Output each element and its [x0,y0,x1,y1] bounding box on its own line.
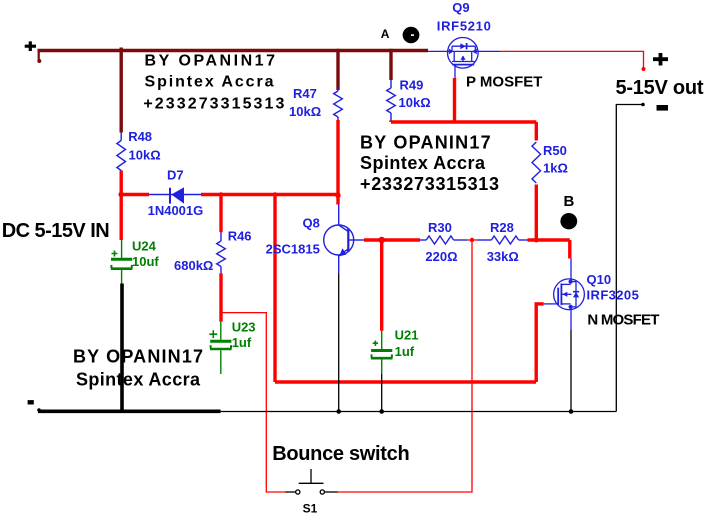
wire: top positive input rail [38,49,429,53]
mosfet Q9 IRF5210 (P MOSFET) [428,38,500,79]
svg-text:R50: R50 [543,143,567,158]
label - output [657,105,669,111]
wire: bounce net switch right to R30/R28 junction (thin red) [338,240,472,492]
svg-text:1uf: 1uf [232,335,252,350]
svg-text:P MOSFET: P MOSFET [466,74,542,91]
svg-text:U23: U23 [232,320,256,335]
svg-text:10uf: 10uf [132,254,159,269]
resistor R46 [217,232,226,273]
wire: maroon stub to R48 [119,48,122,133]
wire: U21 bottom to ground [381,374,383,412]
mosfet Q10 IRF3205 (N MOSFET) [544,259,585,331]
svg-text:R46: R46 [228,229,252,244]
wire: bounce net from U23 node to switch (thin red) [221,313,286,492]
wire: short red at R30/R28 junction [467,239,478,241]
wire: U24 bottom column thick black [120,284,124,412]
svg-text:Spintex Accra: Spintex Accra [145,74,274,91]
svg-text:S1: S1 [303,502,318,516]
svg-text:U21: U21 [395,328,419,343]
junction: x275 tee on D7 row [273,192,278,197]
svg-text:BY OPANIN17: BY OPANIN17 [360,133,491,153]
svg-text:DC 5-15V IN: DC 5-15V IN [2,220,110,242]
svg-text:Q8: Q8 [303,215,320,230]
annotation block middle: BY OPANIN17 [360,133,499,195]
wire: maroon stub to R49 [389,49,392,80]
svg-text:N MOSFET: N MOSFET [587,312,659,329]
svg-text:680kΩ: 680kΩ [174,258,213,273]
wire: Q8 base row [364,238,420,241]
wire: D7 row right segment to Q8 collector node [201,193,340,196]
wire: Q10 gate stub [535,302,544,305]
terminal hook at left end of top rail [38,51,40,61]
wire: output negative [616,105,643,412]
resistor R28 [478,236,528,244]
svg-text:Q9: Q9 [452,0,469,15]
diode D7 1N4001G [149,188,201,204]
junction: Q10 source at ground [569,409,574,414]
svg-text:10kΩ: 10kΩ [129,148,161,163]
node A [403,27,420,43]
svg-text:D7: D7 [167,168,184,183]
capacitor U23 1uf [209,322,231,374]
wire: vertical from D7 row down to bottom red rail [273,195,276,383]
wire: D7 row left segment [121,193,149,196]
resistor R49 [387,80,396,121]
svg-text:1uf: 1uf [395,344,415,359]
wire: ground rail thin [221,411,617,413]
svg-text:BY OPANIN17: BY OPANIN17 [73,347,203,367]
resistor R50 [532,142,541,183]
label - input [28,400,34,404]
svg-text:Spintex Accra: Spintex Accra [360,153,486,173]
wire: R50 bottom lead to node B row [535,185,538,241]
svg-text:A: A [381,27,390,41]
svg-text:BY OPANIN17: BY OPANIN17 [145,53,276,70]
annotation block bottom-left: BY OPANIN17 [73,347,203,390]
transistor Q8 2SC1815 [324,205,364,275]
svg-text:IRF3205: IRF3205 [587,288,639,303]
svg-text:R30: R30 [428,220,452,235]
wire: Q10 source to ground [570,330,572,412]
svg-text:220Ω: 220Ω [425,249,457,264]
svg-text:33kΩ: 33kΩ [487,249,519,264]
junction: R48/U24/D7 node [118,192,124,198]
svg-text:R49: R49 [400,78,424,93]
svg-text:1N4001G: 1N4001G [148,203,204,218]
wire: ground rail thick [38,409,221,413]
svg-text:+233273315313: +233273315313 [360,174,499,194]
svg-text:10kΩ: 10kΩ [399,95,431,110]
svg-text:Bounce switch: Bounce switch [272,443,410,465]
wire: R46 top lead [219,195,222,233]
svg-text:U24: U24 [132,239,157,254]
wire: U21 top column [380,240,383,331]
wire: output positive (thin red) [500,51,644,69]
resistor R48 [117,133,126,171]
wire: node B row from R28 to Q10 drain column [528,238,570,241]
wire: Q10 drain top stub [568,240,571,259]
wire: R49 bottom corner [389,120,392,122]
svg-text:10kΩ: 10kΩ [289,104,321,119]
terminal dot output negative [641,103,645,107]
junction: U21 bottom at ground [379,409,384,414]
wire: R50 top lead [535,122,538,141]
svg-text:B: B [564,193,575,210]
wire: R47 bottom down to Q8 collector stub [336,120,339,205]
svg-text:IRF5210: IRF5210 [437,19,491,34]
svg-text:R28: R28 [490,220,514,235]
wire: maroon stub to R47 [336,49,339,90]
terminal hook ground rail left [37,408,41,412]
capacitor U21 1uf [371,331,393,374]
wire: R48 bottom to U24 top (left column) [119,171,122,241]
wire: Q8 emitter to ground [338,274,340,412]
junction: Q8 base / U21 node [378,237,385,244]
svg-text:R47: R47 [293,86,317,101]
svg-text:2SC1815: 2SC1815 [266,241,320,256]
svg-text:Q10: Q10 [587,272,612,287]
junction: R30/R28/bounce node [470,238,474,242]
svg-text:Spintex Accra: Spintex Accra [76,370,201,390]
node B [560,213,577,229]
junction: R46 top tee [219,192,224,197]
svg-text:5-15V out: 5-15V out [616,77,704,99]
terminal dot output positive [642,67,646,71]
junction: R50/R28 node [534,238,539,243]
label + input [25,41,36,51]
svg-text:R48: R48 [128,129,152,144]
capacitor U24 10uf [111,240,133,284]
wire: R46 bottom to U23 top [219,273,222,321]
annotation block top: BY OPANIN17 [143,53,284,113]
wire: Q10 gate column down to bottom red rail [535,304,538,382]
switch S1 (bounce switch) [286,469,338,492]
wire: bottom red rail [275,380,536,383]
junction: R47/Q8 collector node [335,193,340,198]
wire: row from R49 bottom to R50 top [391,120,536,123]
svg-text:1kΩ: 1kΩ [543,161,568,176]
resistor R47 [334,88,343,120]
junction: Q8 emitter at ground [336,409,341,414]
label + output [653,53,668,66]
resistor R30 [420,236,467,244]
wire: Q9 drain down to row [453,78,456,122]
